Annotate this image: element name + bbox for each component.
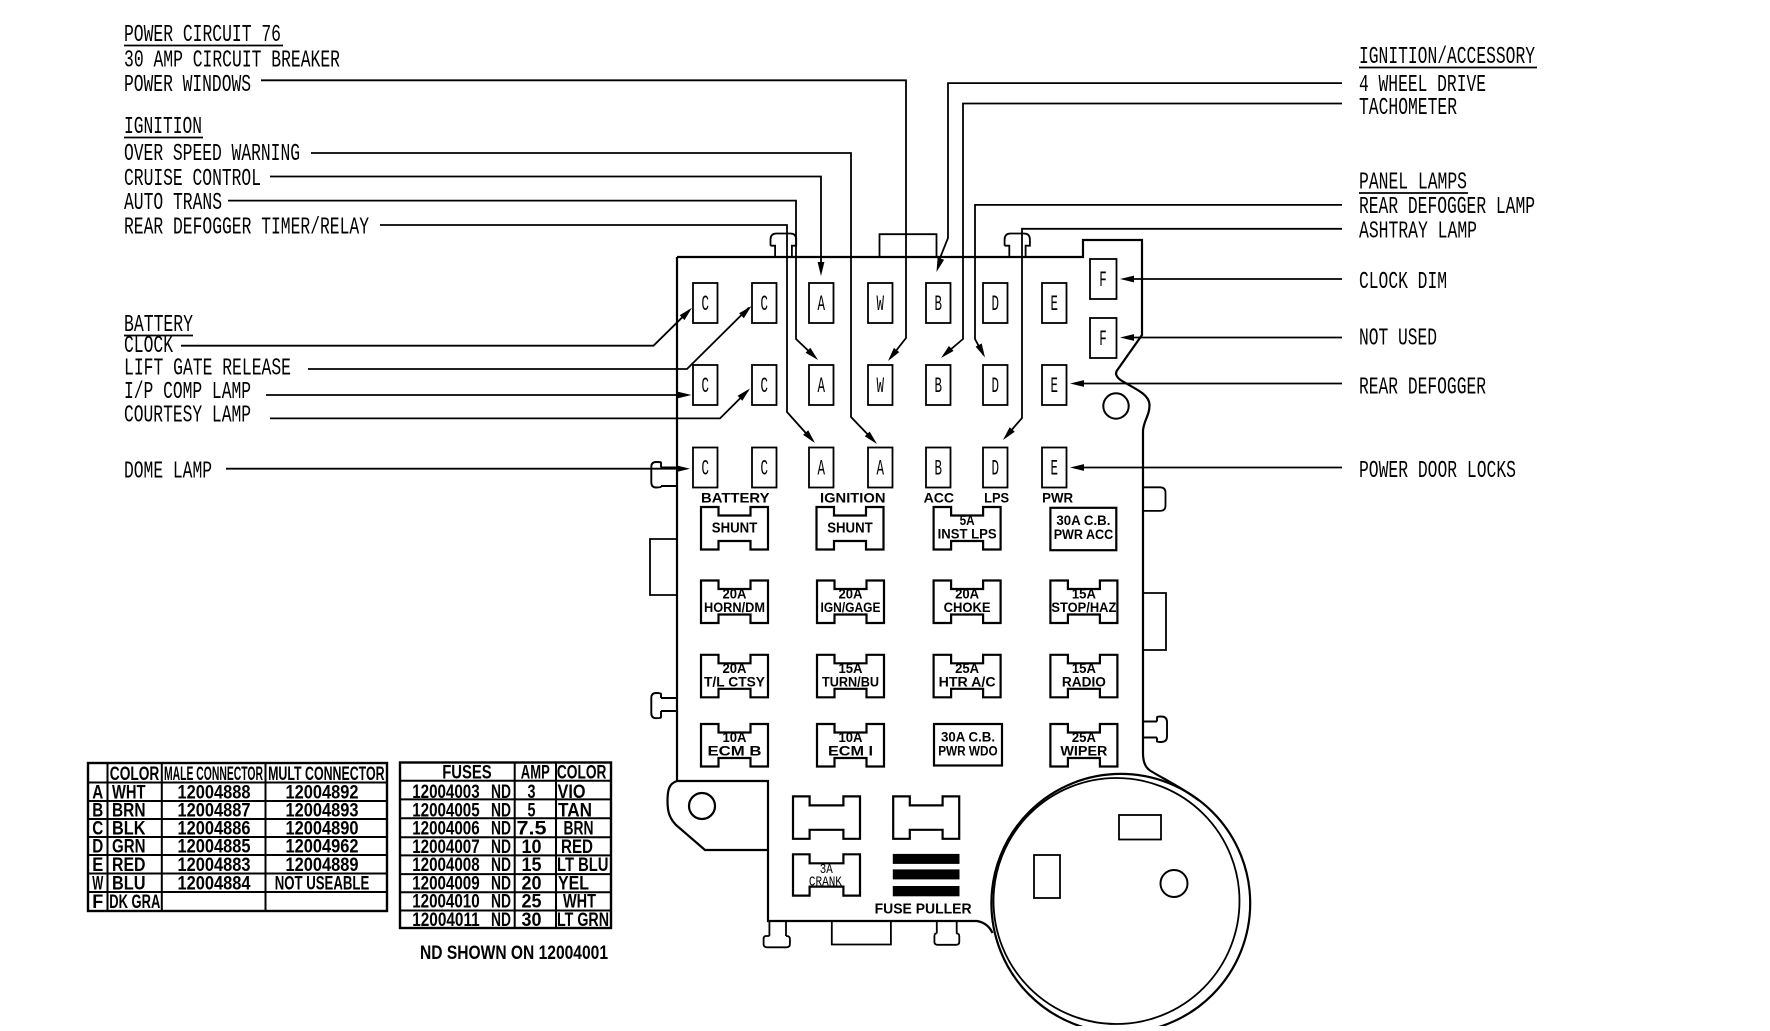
fuse 15A TURN/BU	[817, 655, 884, 698]
svg-text:POWER DOOR LOCKS: POWER DOOR LOCKS	[1359, 458, 1516, 485]
bottom foot right	[934, 921, 959, 945]
spare fuse holder left	[793, 796, 860, 838]
svg-text:NOT USEABLE: NOT USEABLE	[275, 874, 370, 895]
svg-text:CLOCK DIM: CLOCK DIM	[1359, 269, 1447, 296]
svg-text:E: E	[1051, 456, 1059, 482]
svg-text:30A C.B.: 30A C.B.	[941, 730, 995, 745]
svg-text:E: E	[1051, 291, 1059, 317]
svg-text:B: B	[935, 456, 943, 482]
wire REAR DEFOGGER LAMP leader to D row2	[975, 205, 1342, 355]
svg-text:W: W	[877, 291, 885, 317]
bottom center rectangle tab	[832, 921, 891, 945]
wire CRUISE CONTROL leader to A row1	[270, 177, 821, 263]
svg-text:PWR ACC: PWR ACC	[1054, 527, 1114, 542]
fuse 15A RADIO	[1050, 655, 1117, 698]
svg-text:PWR WDO: PWR WDO	[938, 744, 998, 759]
svg-text:TURN/BU: TURN/BU	[822, 674, 879, 689]
wire AUTO TRANS leader to A row2	[228, 201, 816, 358]
fuse block outline left edge and bottom	[677, 257, 993, 933]
spare fuse holder right	[893, 796, 959, 838]
svg-text:ND SHOWN ON 12004001: ND SHOWN ON 12004001	[420, 943, 608, 964]
svg-text:AUTO TRANS: AUTO TRANS	[124, 190, 222, 217]
wire CLOCK leader to C row1 first	[181, 310, 690, 346]
svg-text:HORN/DM: HORN/DM	[704, 600, 765, 615]
terminal box B row2 col5	[926, 365, 951, 405]
wire REAR DEFOGGER leader to E row2	[1083, 383, 1342, 385]
right pin tab lower	[1143, 717, 1167, 743]
terminal box C row2 col1	[693, 365, 718, 405]
wire POWER WINDOWS leader to W row2	[261, 80, 906, 358]
table connector colors outer border	[88, 763, 387, 911]
terminal box C row2 col2	[752, 365, 777, 405]
svg-text:FUSES: FUSES	[442, 762, 492, 783]
terminal box D row1 col6	[983, 283, 1008, 323]
fuse 20A T/L CTSY	[701, 655, 768, 698]
terminal box D row2 col6	[983, 365, 1008, 405]
fuse SHUNT (battery)	[701, 507, 768, 550]
svg-text:30 AMP CIRCUIT BREAKER: 30 AMP CIRCUIT BREAKER	[124, 48, 340, 75]
connector cavity round hole	[1161, 870, 1188, 897]
terminal box B row1 col5	[926, 283, 951, 323]
svg-text:DOME LAMP: DOME LAMP	[124, 459, 212, 486]
table connector colors column lines	[107, 763, 109, 911]
wire ASHTRAY LAMP leader to D row3	[1006, 229, 1343, 437]
svg-text:NOT USED: NOT USED	[1359, 326, 1437, 353]
svg-text:E: E	[1051, 373, 1059, 399]
svg-text:IGNITION: IGNITION	[820, 490, 886, 506]
wire TACHOMETER leader to B row2	[944, 104, 1343, 356]
fuse 5A INST LPS	[934, 507, 1001, 550]
left pin tab lower	[651, 693, 677, 718]
terminal box W row1 col4	[868, 283, 893, 323]
svg-text:COURTESY LAMP: COURTESY LAMP	[124, 403, 251, 430]
svg-text:WIPER: WIPER	[1060, 744, 1107, 759]
svg-text:C: C	[761, 373, 769, 399]
svg-text:B: B	[935, 373, 943, 399]
svg-text:C: C	[702, 456, 710, 482]
svg-text:OVER SPEED WARNING: OVER SPEED WARNING	[124, 141, 300, 168]
terminal box F upper (clock dim)	[1090, 259, 1117, 299]
svg-text:CHOKE: CHOKE	[944, 600, 991, 615]
top tab rectangle center	[880, 234, 937, 257]
left pin tab upper	[651, 462, 677, 488]
svg-text:SHUNT: SHUNT	[827, 521, 873, 537]
fuse 20A CHOKE	[934, 581, 1001, 624]
circuit breaker 30A C.B. PWR ACC	[1050, 508, 1116, 550]
terminal box E row2 col7	[1042, 365, 1067, 405]
fuse 10A ECM I	[817, 724, 884, 767]
svg-text:CRANK: CRANK	[809, 875, 842, 891]
svg-text:D: D	[992, 373, 1000, 399]
fuse 3A CRANK	[793, 854, 860, 895]
svg-text:30: 30	[522, 910, 542, 931]
wire COURTESY LAMP leader to C row2 second	[270, 391, 748, 419]
svg-text:C: C	[702, 373, 710, 399]
circuit breaker 30A C.B. PWR WDO	[934, 724, 1002, 766]
svg-text:D: D	[992, 291, 1000, 317]
svg-text:REAR DEFOGGER: REAR DEFOGGER	[1359, 375, 1486, 402]
terminal box D row3 col6	[983, 448, 1008, 488]
svg-text:A: A	[818, 456, 826, 482]
svg-text:C: C	[761, 456, 769, 482]
svg-text:30A C.B.: 30A C.B.	[1056, 513, 1110, 528]
terminal box A row2 col3	[809, 365, 834, 405]
connector cavity rectangle horizontal	[1119, 815, 1161, 840]
svg-text:SHUNT: SHUNT	[712, 521, 758, 537]
svg-text:W: W	[877, 373, 885, 399]
large round connector inner circle	[994, 778, 1240, 1024]
svg-text:STOP/HAZ: STOP/HAZ	[1051, 600, 1116, 615]
terminal box C row3 col1	[693, 448, 718, 488]
bottom foot left	[764, 921, 790, 947]
svg-text:DK GRA: DK GRA	[109, 892, 160, 913]
terminal box A row1 col3	[809, 283, 834, 323]
fuse SHUNT (ignition)	[817, 507, 884, 550]
svg-text:ACC: ACC	[924, 490, 955, 506]
table connector colors row lines	[88, 782, 387, 784]
svg-text:FUSE PULLER: FUSE PULLER	[875, 901, 972, 918]
svg-text:TACHOMETER: TACHOMETER	[1359, 95, 1457, 122]
wire CLOCK DIM leader to fuse F1	[1133, 278, 1342, 280]
top tab mushroom left	[771, 234, 797, 258]
svg-text:INST LPS: INST LPS	[938, 527, 997, 542]
svg-text:IGN/GAGE: IGN/GAGE	[821, 600, 881, 615]
svg-text:BATTERY: BATTERY	[701, 490, 770, 506]
fuse 20A IGN/GAGE	[817, 581, 884, 624]
svg-text:PWR: PWR	[1042, 490, 1073, 506]
svg-text:A: A	[818, 373, 826, 399]
svg-text:CRUISE CONTROL: CRUISE CONTROL	[124, 166, 261, 193]
terminal box A row3 col3	[809, 448, 834, 488]
wire DOME LAMP leader to C row3 first	[226, 468, 677, 470]
fuse 25A HTR A/C	[934, 655, 1001, 698]
fuse 25A WIPER	[1050, 724, 1117, 767]
svg-text:COLOR: COLOR	[557, 762, 607, 783]
fuse 10A ECM B	[701, 724, 768, 767]
mounting wing bottom-left of block	[668, 781, 769, 850]
table fuses column lines	[514, 763, 516, 929]
svg-text:12004884: 12004884	[178, 874, 251, 895]
wire I/P COMP LAMP leader to C row2 first	[266, 394, 678, 396]
svg-text:AMP: AMP	[521, 762, 550, 783]
svg-text:HTR A/C: HTR A/C	[939, 674, 996, 689]
svg-text:12004011: 12004011	[412, 910, 480, 931]
mounting hole in wing	[689, 793, 715, 819]
wire NOT USED leader to fuse F2	[1133, 337, 1342, 339]
terminal box B row3 col5	[926, 448, 951, 488]
terminal box E row1 col7	[1042, 283, 1067, 323]
svg-text:ECM B: ECM B	[708, 744, 762, 759]
svg-text:RADIO: RADIO	[1062, 674, 1106, 689]
svg-text:F: F	[1099, 267, 1107, 293]
fuse block outline top and right edge	[677, 240, 1199, 801]
svg-text:T/L CTSY: T/L CTSY	[704, 674, 765, 689]
wire LIFT GATE RELEASE leader to C row1 second	[308, 308, 749, 370]
terminal box C row3 col2	[752, 448, 777, 488]
svg-text:LPS: LPS	[984, 490, 1009, 506]
terminal box C row1 col1	[693, 283, 718, 323]
svg-text:REAR DEFOGGER TIMER/RELAY: REAR DEFOGGER TIMER/RELAY	[124, 215, 369, 242]
left rectangle tab	[650, 539, 677, 595]
fuse 15A STOP/HAZ	[1050, 581, 1117, 624]
terminal box A row3 col4	[868, 448, 893, 488]
terminal box F lower (not used)	[1090, 318, 1117, 358]
terminal box W row2 col4	[868, 365, 893, 405]
svg-text:REAR DEFOGGER LAMP: REAR DEFOGGER LAMP	[1359, 194, 1535, 221]
svg-text:ECM I: ECM I	[828, 744, 873, 759]
connector cavity rectangle vertical	[1034, 855, 1060, 898]
wire OVER SPEED WARNING leader to A row3 right	[311, 153, 875, 442]
svg-text:ASHTRAY LAMP: ASHTRAY LAMP	[1359, 219, 1477, 246]
svg-text:POWER WINDOWS: POWER WINDOWS	[124, 72, 251, 99]
wire 4 WHEEL DRIVE leader to B row1	[938, 83, 1342, 263]
large round connector outer circle	[991, 774, 1250, 1031]
svg-text:C: C	[702, 291, 710, 317]
svg-text:D: D	[992, 456, 1000, 482]
right pin tab upper	[1143, 487, 1166, 511]
svg-text:F: F	[92, 892, 103, 913]
mounting hole right side of block	[1103, 393, 1128, 418]
wire REAR DEFOGGER TIMER/RELAY leader to A row3 left	[380, 225, 813, 441]
svg-text:A: A	[877, 456, 885, 482]
terminal box E row3 col7	[1042, 448, 1067, 488]
table fuses outer border	[400, 763, 611, 929]
svg-text:F: F	[1099, 326, 1107, 352]
top tab mushroom right	[1005, 234, 1030, 258]
fuse puller (black stripes)	[893, 854, 960, 864]
table fuses row lines	[400, 780, 611, 782]
fuse 20A HORN/DM	[701, 581, 768, 624]
svg-text:LT GRN: LT GRN	[557, 910, 609, 931]
svg-text:A: A	[818, 291, 826, 317]
svg-text:ND: ND	[491, 910, 511, 931]
right rectangle tab	[1143, 593, 1166, 650]
svg-text:C: C	[761, 291, 769, 317]
terminal box C row1 col2	[752, 283, 777, 323]
svg-text:B: B	[935, 291, 943, 317]
wire POWER DOOR LOCKS leader to E row3	[1083, 467, 1342, 469]
